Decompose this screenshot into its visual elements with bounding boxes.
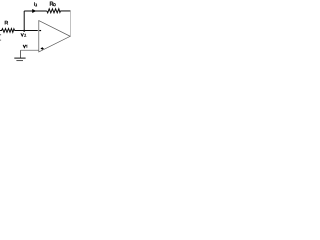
leftover mark b (cropped label) xyxy=(0,40,1,41)
op-amp plus sign xyxy=(41,47,44,50)
node label v2 xyxy=(21,33,26,36)
wire right vertical down to output xyxy=(70,11,72,36)
wire noninverting input xyxy=(21,49,39,51)
leftover mark a (cropped label) xyxy=(0,34,1,35)
ground stem xyxy=(20,50,22,58)
wire feedback left vertical xyxy=(23,11,25,31)
wire main horizontal to op-amp inverting input xyxy=(15,30,38,32)
op-amp minus sign xyxy=(39,30,41,32)
node junction dot xyxy=(23,30,25,32)
label v1 xyxy=(23,45,27,48)
label i2 xyxy=(34,2,37,6)
ground bar 2 xyxy=(16,60,23,62)
ground bar 1 xyxy=(14,57,25,59)
resistor R1 xyxy=(0,29,15,33)
label R0 xyxy=(50,2,55,6)
resistor Rf (top feedback) xyxy=(47,9,61,13)
op-amp U1 triangle xyxy=(39,21,70,52)
label R (value label of R1) xyxy=(5,21,8,24)
wire feedback top horizontal xyxy=(24,10,47,12)
wire feedback to output xyxy=(60,10,70,12)
current arrowhead i2 xyxy=(32,9,36,13)
